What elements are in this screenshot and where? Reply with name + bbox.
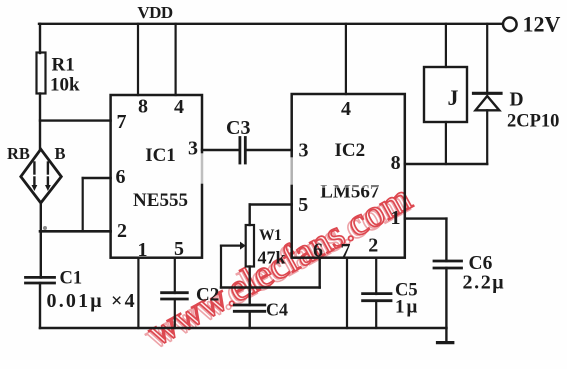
svg-text:6: 6 [116, 166, 126, 188]
junction dot pin2 row [43, 226, 47, 230]
svg-text:2: 2 [368, 235, 378, 257]
svg-text:C4: C4 [266, 300, 288, 320]
wire C1 bottom to rail [39, 283, 41, 328]
svg-text:10k: 10k [50, 75, 80, 96]
svg-text:6: 6 [313, 240, 323, 262]
svg-text:C3: C3 [226, 117, 250, 139]
wire VDD drop to IC1 pin4 [175, 24, 177, 95]
wire VDD drop to IC2 pin4 [345, 24, 347, 94]
potentiometer W1 body [246, 225, 254, 267]
wire diode to pin8 row [486, 110, 488, 164]
svg-text:2: 2 [117, 220, 127, 242]
capacitor C1 [26, 277, 55, 283]
wire C6 bottom through rail to stub [445, 268, 447, 343]
svg-text:4: 4 [341, 98, 351, 120]
svg-text:7: 7 [117, 111, 127, 133]
wire pin5 down to W1 top [248, 205, 250, 226]
svg-text:R1: R1 [52, 55, 75, 76]
svg-text:3: 3 [299, 140, 309, 162]
wire wiper down [220, 246, 222, 288]
svg-text:NE555: NE555 [133, 190, 188, 211]
RB arrow 1 [32, 163, 38, 192]
wire IC2 pin6 drop [319, 258, 321, 288]
wire IC2 pin2 to C5 [375, 258, 377, 294]
svg-text:IC1: IC1 [145, 145, 176, 166]
op-amp IC2 box [292, 94, 405, 258]
wire pin2 row [40, 230, 111, 233]
wire W1 bottom to C4 [248, 267, 250, 306]
svg-text:RB: RB [7, 144, 30, 163]
svg-text:D: D [510, 90, 524, 111]
node 12V terminal [503, 18, 517, 32]
wire VDD rail [39, 23, 503, 25]
wire pin7 row [40, 119, 111, 121]
wire C3 to IC2 pin3 [247, 149, 292, 151]
wire IC2 pin8 row [405, 163, 487, 165]
svg-text:0.01μ ×4: 0.01μ ×4 [47, 290, 137, 312]
svg-text:3: 3 [188, 138, 198, 160]
scan fade on IC2 left edge [290, 159, 293, 183]
wire IC1 pin5 to C2 [174, 258, 176, 293]
wire IC1 pin1 to rail [137, 258, 139, 328]
wire pin6 horizontal [83, 177, 111, 179]
svg-text:VDD: VDD [137, 3, 173, 22]
wire left vertical top (rail to R1) [39, 24, 41, 53]
svg-text:7: 7 [341, 240, 351, 262]
svg-text:2.2μ: 2.2μ [463, 272, 506, 294]
wire IC2 pin7 to rail [346, 258, 348, 328]
svg-text:4: 4 [174, 96, 184, 118]
wire C4 bottom to rail [248, 311, 250, 328]
wire wiper/pot-bottom to IC2 pin6 [221, 286, 320, 288]
ground stub bar [438, 341, 453, 344]
relay J box [424, 67, 467, 122]
wire diamond bottom to C1 [40, 203, 42, 278]
capacitor C3 [240, 138, 245, 164]
capacitor C4 [234, 305, 264, 311]
diode D triangle [476, 96, 500, 110]
wire C5 bottom to rail [375, 301, 377, 328]
svg-text:W1: W1 [259, 227, 281, 244]
resistor R1 [37, 53, 46, 94]
svg-text:2CP10: 2CP10 [507, 112, 559, 132]
diode D cathode bar [474, 92, 502, 95]
capacitor C2 [162, 293, 188, 299]
wire VDD drop to diode [486, 24, 488, 93]
wire VDD drop to IC1 pin8 [137, 24, 139, 95]
scan fade on LM567 top [320, 179, 380, 188]
svg-text:J: J [448, 85, 459, 110]
svg-text:8: 8 [138, 96, 148, 118]
svg-text:1μ: 1μ [395, 297, 419, 318]
svg-text:12V: 12V [523, 12, 561, 37]
svg-text:5: 5 [298, 194, 308, 216]
svg-text:1: 1 [391, 207, 401, 229]
scan fade on IC1 right edge [200, 155, 203, 182]
wire pin6 to pin2 vertical [82, 178, 84, 231]
wire pin1 down to C6 [445, 219, 447, 261]
svg-text:47k: 47k [258, 248, 286, 268]
wire J bottom to pin8 row [445, 122, 447, 164]
svg-text:8: 8 [391, 152, 401, 174]
wire R1 bottom to diamond top [39, 94, 41, 151]
wire IC2 pin1 row [405, 217, 447, 219]
svg-text:B: B [55, 144, 66, 163]
svg-text:C2: C2 [196, 285, 219, 306]
wire bottom rail [40, 327, 446, 330]
wire IC1 pin3 to C3 [202, 149, 239, 151]
svg-text:C1: C1 [60, 269, 83, 289]
capacitor C6 [434, 261, 462, 268]
svg-text:IC2: IC2 [334, 140, 365, 161]
wire VDD drop to relay J [445, 24, 447, 67]
wire IC2 pin5 row [250, 203, 292, 205]
wire C2 bottom to rail [174, 299, 176, 328]
capacitor C5 [363, 294, 391, 301]
RB arrow 2 [45, 163, 51, 192]
W1 wiper arrow [221, 242, 246, 250]
op-amp IC1 box [111, 95, 202, 258]
watermark www.elecfans.com [137, 176, 419, 358]
photoresistor RB diamond [21, 149, 62, 203]
